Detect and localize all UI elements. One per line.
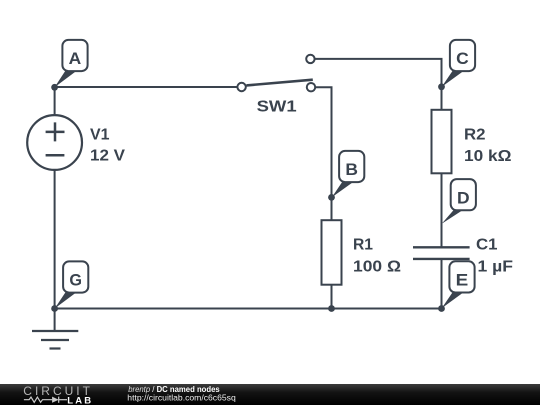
wire node C down to R2 top — [441, 87, 443, 110]
switch SW1 lever — [246, 80, 312, 86]
svg-text:http://circuitlab.com/c6c65sq: http://circuitlab.com/c6c65sq — [127, 393, 236, 403]
node C junction dot — [438, 83, 445, 90]
svg-text:E: E — [456, 271, 469, 290]
R2 value label — [464, 126, 512, 165]
switch SW1 top throw terminal — [306, 55, 314, 63]
CircuitLab logo resistor-diode squiggle — [24, 397, 67, 403]
node E junction dot — [438, 305, 445, 312]
wire node A down to V1 positive terminal — [54, 87, 56, 115]
wire R1 bottom to bottom rail — [331, 285, 333, 309]
node B balloon — [332, 151, 364, 197]
wire V1 negative terminal down to node G — [54, 170, 56, 309]
node C balloon — [442, 40, 475, 87]
svg-text:12 V: 12 V — [90, 148, 125, 165]
wire capacitor C1 bottom plate to node E — [441, 259, 443, 309]
resistor R1 — [322, 220, 342, 285]
svg-text:SW1: SW1 — [257, 99, 297, 116]
wire SW1 top throw terminal right to corner and down to node C — [315, 59, 442, 87]
svg-text:10 kΩ: 10 kΩ — [464, 148, 512, 165]
svg-text:R2: R2 — [464, 126, 486, 143]
svg-text:G: G — [69, 271, 82, 290]
R1 value label — [353, 237, 401, 276]
svg-text:B: B — [345, 160, 358, 179]
ground stem from node G — [54, 309, 56, 332]
capacitor C1 — [413, 247, 470, 259]
switch SW1 right terminal — [307, 83, 315, 91]
V1 value label — [90, 126, 125, 164]
node G junction dot — [51, 305, 58, 312]
svg-text:C: C — [456, 49, 469, 68]
switch SW1 left terminal — [237, 83, 245, 91]
svg-text:D: D — [457, 188, 470, 207]
C1 value label — [476, 237, 513, 276]
svg-text:V1: V1 — [90, 126, 110, 143]
ground — [32, 331, 78, 349]
node A junction dot — [51, 84, 58, 91]
node G balloon — [55, 261, 89, 308]
node A balloon — [55, 40, 88, 87]
node D balloon — [442, 179, 476, 224]
svg-text:A: A — [69, 49, 82, 68]
resistor R2 — [432, 110, 452, 174]
wire node A to switch SW1 left terminal — [55, 86, 238, 88]
wire SW1 right terminal to R1 branch corner and down to node B and R1 — [315, 87, 331, 220]
svg-text:R1: R1 — [353, 237, 373, 254]
voltage source V1 — [27, 115, 82, 170]
node E balloon — [442, 261, 475, 308]
node B junction dot — [328, 194, 335, 201]
svg-text:LAB: LAB — [67, 395, 93, 405]
svg-text:1 µF: 1 µF — [478, 258, 514, 275]
svg-text:C1: C1 — [476, 237, 498, 254]
wire bottom rail from node G to node E — [55, 308, 442, 310]
svg-text:100 Ω: 100 Ω — [353, 258, 401, 275]
wire R2 bottom to capacitor C1 top plate — [441, 173, 443, 247]
footer bar — [0, 384, 540, 405]
junction dot R1 bottom — [328, 305, 335, 312]
